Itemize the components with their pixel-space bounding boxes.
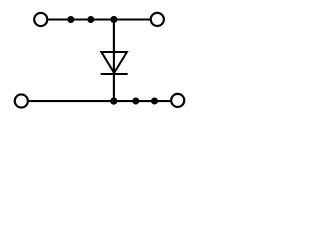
terminal circle top-left — [34, 13, 47, 26]
junction dot top 1 — [67, 16, 74, 23]
node bottom T-junction — [110, 98, 117, 105]
terminal circle bottom-right — [171, 94, 184, 107]
terminal circle bottom-left — [15, 94, 28, 107]
junction dot bottom 2 — [151, 98, 158, 105]
wire vertical branch — [113, 20, 115, 102]
wire bottom rail — [28, 100, 171, 102]
junction dot bottom 1 — [132, 98, 139, 105]
wire top rail — [47, 18, 150, 20]
junction dot top 2 — [87, 16, 94, 23]
diode D1 cathode bar — [101, 73, 128, 75]
diode D1 triangle (anode) — [101, 52, 127, 73]
node top T-junction — [110, 16, 117, 23]
terminal circle top-right — [151, 13, 164, 26]
